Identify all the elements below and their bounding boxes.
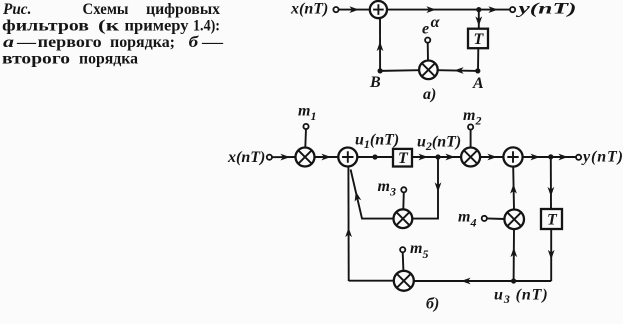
- multiplier m2: [461, 148, 480, 167]
- wire T1 to m2: [412, 156, 461, 158]
- delay block T2: [541, 209, 562, 229]
- wire m2 terminal down: [470, 129, 472, 147]
- svg-text:б: б: [189, 34, 200, 51]
- wire m3 terminal down: [402, 192, 405, 209]
- input terminal circle (a): [333, 7, 338, 12]
- node u2 junction dot: [435, 154, 440, 159]
- wire m5 terminal down: [402, 252, 405, 271]
- svg-text:x(nT): x(nT): [227, 149, 265, 166]
- output terminal circle (a): [510, 7, 515, 12]
- delay block T1 (b): [393, 149, 412, 167]
- wire m4 terminal to multiplier: [487, 217, 505, 220]
- wire T down to node A: [477, 48, 479, 71]
- node B: [378, 68, 383, 73]
- svg-text:(к: (к: [98, 18, 120, 35]
- wire m2 to adder2: [480, 156, 503, 158]
- svg-text:y(nT): y(nT): [515, 1, 576, 18]
- svg-text:Рис.: Рис.: [2, 1, 31, 18]
- input terminal circle (b): [267, 155, 272, 160]
- adder 2 (b): [503, 147, 522, 166]
- svg-text:второго: второго: [2, 51, 70, 68]
- wire B up into adder (a): [379, 18, 381, 71]
- svg-text:1.4):: 1.4):: [193, 18, 220, 35]
- coefficient terminal m5: [400, 247, 405, 252]
- svg-text:y(nT): y(nT): [581, 149, 623, 166]
- output terminal circle (b): [576, 155, 581, 160]
- wire input to multiplier m1: [272, 156, 296, 158]
- svg-text:A: A: [472, 75, 484, 92]
- wire m4 up into adder2: [512, 167, 515, 210]
- svg-text:порядка;: порядка;: [110, 34, 175, 51]
- wire input to adder (a): [338, 9, 370, 11]
- node u3 junction dot: [511, 278, 516, 283]
- node junction on output (a): [476, 7, 481, 12]
- wire adder2 to y terminal (b): [523, 156, 577, 158]
- coefficient terminal m2: [468, 124, 473, 129]
- coefficient terminal e^a circle: [425, 38, 430, 43]
- node u1 junction dot: [372, 154, 377, 159]
- multiplier m4: [504, 210, 524, 230]
- wire m1 terminal down: [304, 129, 307, 148]
- multiplier m3: [394, 209, 413, 228]
- svg-text:фильтров: фильтров: [2, 18, 89, 35]
- wire feedback m5 up into adder1: [347, 167, 349, 281]
- svg-text:примеру: примеру: [125, 18, 189, 35]
- svg-text:а: а: [3, 34, 14, 51]
- svg-text:T: T: [398, 150, 409, 167]
- wire junction down to T (a): [478, 10, 480, 29]
- svg-text:x(nT): x(nT): [290, 0, 328, 17]
- svg-text:цифровых: цифровых: [146, 1, 220, 18]
- wire multiplier to node B: [380, 69, 419, 72]
- multiplier m5: [394, 271, 414, 291]
- svg-text:B: B: [369, 74, 381, 91]
- wire y junction down to T2: [550, 159, 552, 209]
- wire e^a terminal to multiplier: [427, 42, 429, 60]
- node A: [475, 68, 480, 73]
- coefficient terminal m1: [303, 124, 308, 129]
- multiplier m1: [296, 148, 315, 167]
- coefficient terminal m3: [401, 187, 406, 192]
- wire adder output to y terminal (a): [387, 9, 510, 11]
- delay block T (a): [468, 29, 488, 49]
- wire A to multiplier (a): [438, 69, 478, 72]
- wire adder1 to T1: [357, 156, 393, 158]
- svg-text:Схемы: Схемы: [83, 1, 129, 18]
- svg-text:а): а): [423, 86, 436, 103]
- wire u3 junction up to m4: [513, 229, 515, 281]
- svg-text:—: —: [16, 34, 37, 51]
- svg-text:порядка: порядка: [79, 51, 138, 68]
- svg-text:u2(nT): u2(nT): [417, 134, 461, 154]
- svg-text:T: T: [474, 31, 485, 48]
- wire m1 to adder1: [315, 156, 339, 158]
- adder 1 (b): [338, 148, 357, 167]
- svg-text:u3 (nT): u3 (nT): [494, 287, 549, 307]
- svg-text:первого: первого: [38, 34, 102, 51]
- wire m3 output to adder1: [351, 170, 394, 219]
- wire T2 down to bottom line: [550, 229, 552, 281]
- node y junction dot: [548, 154, 553, 159]
- svg-text:б): б): [426, 296, 439, 313]
- wire bottom feedback line: [414, 280, 551, 282]
- op adder U1 (a): [370, 1, 387, 18]
- svg-text:—: —: [201, 34, 225, 51]
- multiplier e-alpha (a): [419, 61, 438, 80]
- wire u2 junction down to m3: [412, 159, 438, 219]
- svg-text:T: T: [547, 212, 558, 229]
- coefficient terminal m4: [482, 216, 487, 221]
